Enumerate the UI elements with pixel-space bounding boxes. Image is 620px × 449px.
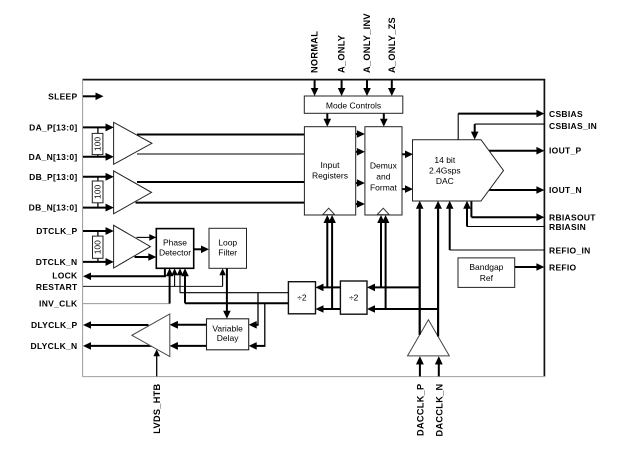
svg-text:Detector: Detector	[159, 247, 191, 257]
svg-text:Variable: Variable	[212, 323, 243, 333]
svg-text:Input: Input	[321, 160, 341, 170]
svg-text:DB_P[13:0]: DB_P[13:0]	[29, 172, 77, 182]
svg-text:LOCK: LOCK	[52, 271, 78, 281]
svg-text:CSBIAS: CSBIAS	[549, 109, 583, 119]
svg-text:Phase: Phase	[163, 238, 187, 248]
svg-text:REFIO_IN: REFIO_IN	[549, 245, 591, 255]
svg-text:DLYCLK_P: DLYCLK_P	[31, 320, 78, 330]
svg-text:÷2: ÷2	[349, 293, 359, 303]
svg-text:IOUT_P: IOUT_P	[549, 146, 582, 156]
svg-text:DAC: DAC	[436, 176, 454, 186]
svg-text:A_ONLY_ZS: A_ONLY_ZS	[387, 17, 397, 73]
svg-text:DA_N[13:0]: DA_N[13:0]	[29, 152, 78, 162]
svg-text:Delay: Delay	[217, 333, 239, 343]
svg-text:Ref: Ref	[480, 273, 494, 283]
svg-text:IOUT_N: IOUT_N	[549, 185, 582, 195]
svg-text:Format: Format	[370, 183, 398, 193]
svg-text:SLEEP: SLEEP	[48, 91, 77, 101]
svg-text:DLYCLK_N: DLYCLK_N	[31, 341, 78, 351]
svg-text:DA_P[13:0]: DA_P[13:0]	[29, 122, 77, 132]
svg-text:2.4Gsps: 2.4Gsps	[429, 166, 461, 176]
svg-text:Demux: Demux	[370, 161, 398, 171]
svg-text:DACCLK_N: DACCLK_N	[435, 383, 445, 436]
svg-text:and: and	[376, 171, 390, 181]
svg-text:A_ONLY_INV: A_ONLY_INV	[362, 13, 372, 73]
svg-text:Registers: Registers	[312, 171, 348, 181]
svg-text:DACCLK_P: DACCLK_P	[415, 384, 425, 436]
svg-text:DTCLK_N: DTCLK_N	[36, 257, 78, 267]
svg-text:INV_CLK: INV_CLK	[39, 299, 78, 309]
svg-text:RBIASOUT: RBIASOUT	[549, 212, 596, 222]
svg-text:100: 100	[93, 240, 103, 254]
svg-text:RESTART: RESTART	[36, 282, 78, 292]
svg-text:DTCLK_P: DTCLK_P	[36, 226, 77, 236]
svg-text:NORMAL: NORMAL	[310, 31, 320, 73]
svg-text:÷2: ÷2	[297, 293, 307, 303]
svg-text:14 bit: 14 bit	[434, 155, 455, 165]
svg-text:100: 100	[93, 137, 103, 151]
svg-text:Mode Controls: Mode Controls	[326, 101, 381, 111]
svg-text:DB_N[13:0]: DB_N[13:0]	[29, 203, 78, 213]
svg-text:Filter: Filter	[218, 247, 237, 257]
svg-text:100: 100	[93, 185, 103, 199]
svg-text:Loop: Loop	[218, 238, 237, 248]
svg-text:RBIASIN: RBIASIN	[549, 222, 586, 232]
svg-text:LVDS_HTB: LVDS_HTB	[152, 383, 162, 433]
svg-text:Bandgap: Bandgap	[469, 262, 503, 272]
svg-text:REFIO: REFIO	[549, 262, 577, 272]
svg-text:CSBIAS_IN: CSBIAS_IN	[549, 121, 597, 131]
svg-text:A_ONLY: A_ONLY	[337, 35, 347, 73]
